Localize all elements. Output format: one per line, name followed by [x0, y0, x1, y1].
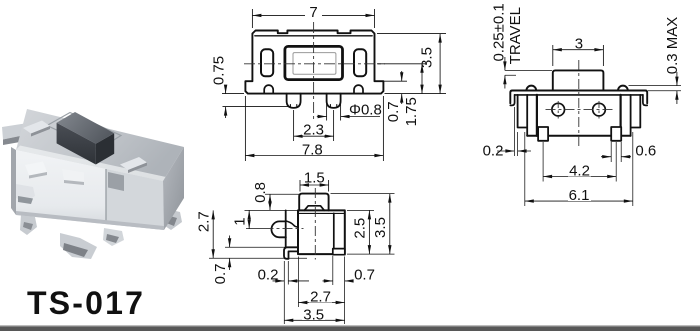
svg-text:7: 7 [309, 4, 317, 21]
side view bracket right lip [643, 95, 647, 106]
top view right slot [354, 49, 366, 76]
svg-text:3: 3 [575, 35, 583, 52]
side view right contact circle [593, 103, 606, 116]
3d body top front rim highlight [16, 146, 166, 182]
3d body left end face [11, 147, 16, 215]
top view body outline [245, 31, 383, 94]
top view left U-notch in flange [264, 85, 273, 93]
svg-text:0.2: 0.2 [258, 266, 279, 283]
3d center foot [60, 233, 97, 259]
dimension 7.8 ext lines [245, 96, 383, 161]
svg-text:4.2: 4.2 [569, 162, 590, 179]
svg-text:0.6: 0.6 [635, 142, 656, 159]
3d button right face [96, 133, 114, 164]
side view body bottom [527, 135, 630, 137]
3d terminal recess on right panel [108, 172, 124, 191]
dimension 0.7 right ext lines [333, 256, 345, 324]
seating plane line [209, 257, 307, 259]
dimension 0.3max ext lines [629, 86, 682, 91]
dimension 4.2 ext lines [543, 142, 616, 182]
top view center button outer [285, 46, 343, 79]
profile left plate edge [285, 210, 287, 247]
profile top seam [298, 212, 345, 214]
side view left contact circle [552, 103, 565, 116]
side view bracket left lip [510, 95, 514, 106]
profile horizontal centerline [264, 228, 304, 230]
3d front right panel [106, 169, 164, 230]
dimension 3.5 right line [389, 194, 391, 255]
svg-text:6.1: 6.1 [569, 187, 590, 204]
dimension 7 extension lines [252, 9, 374, 28]
dimension 6.1 line [525, 200, 633, 202]
dimension 3.5 right ext lines [331, 194, 395, 255]
3d center-right foot [103, 228, 124, 246]
dimension 0.7 right stubs [323, 280, 353, 282]
3d front-left foot [20, 214, 37, 235]
dimension 1.75 ext line [377, 63, 427, 65]
svg-text:0.2: 0.2 [483, 143, 504, 160]
3d bracket lip tab [2, 123, 34, 140]
dimension 2.3 ext lines [294, 110, 334, 141]
svg-text:1: 1 [231, 217, 248, 225]
top view dim texts [305, 3, 322, 16]
svg-text:0.8: 0.8 [252, 182, 269, 203]
3d top face right pad [120, 157, 147, 170]
profile actuator trapezoid [304, 206, 324, 211]
dimension 0.3max stubs [676, 72, 678, 104]
svg-text:2.5: 2.5 [352, 218, 369, 239]
top view right pin [327, 94, 341, 108]
side view button [553, 70, 604, 90]
svg-text:3.5: 3.5 [303, 306, 324, 323]
top view left pin [287, 94, 301, 108]
svg-text:Φ0.8: Φ0.8 [349, 102, 382, 119]
top view cover inner line [255, 35, 372, 37]
side view dim arrows [553, 48, 562, 51]
3d button recess seam [47, 113, 121, 150]
svg-text:0.7: 0.7 [212, 263, 229, 284]
side view bracket top plate [510, 91, 647, 104]
3d front face pill 2 [62, 169, 84, 182]
dimension 3.5 ext lines [377, 34, 446, 94]
dimension 0.2 ext lines [514, 107, 517, 156]
profile dim arrows [300, 183, 309, 186]
profile plunger [271, 221, 285, 237]
top view button inner faint line [293, 53, 336, 75]
dimension 1.75 line [421, 64, 423, 94]
dimension 1 line [248, 210, 250, 228]
3d button front face [57, 123, 96, 165]
dimension 0.8 line [269, 194, 271, 210]
dimension 6.1 ext lines [525, 132, 633, 206]
dimension phi0.8 line [317, 116, 380, 118]
profile body outline [298, 210, 345, 254]
dimension 7.8 line [245, 155, 383, 157]
dimension 2.3 line [294, 135, 334, 137]
side view vertical centerline [578, 60, 580, 146]
side view left body edge [536, 95, 538, 136]
top view left pin inner ticks [290, 105, 296, 108]
dimension 3.5 line [439, 34, 441, 94]
dimension 1.5 line [300, 184, 329, 186]
dimension 0.2 bottom ext lines [284, 261, 288, 324]
side view right body edge [619, 95, 621, 136]
dimension 0.75 stubs [225, 87, 227, 119]
dimension 0.7 left ext line (foot top) [225, 246, 287, 248]
shared body-top ext line [245, 209, 299, 211]
dimension 0.7 left stubs [229, 236, 231, 271]
dimension 2.7 bottom ext line [297, 257, 299, 308]
dimension 0.2 bottom stubs [273, 280, 310, 282]
3d body top face [16, 109, 184, 181]
top view right pin inner ticks [330, 105, 336, 108]
top view vertical centerline [313, 22, 315, 121]
dimension travel stubs [504, 57, 506, 89]
dimension 0.6 stubs [601, 156, 631, 158]
side view horizontal centerline [546, 109, 613, 111]
svg-text:TRAVEL: TRAVEL [507, 7, 524, 64]
extended centerline for dim 1 [246, 228, 264, 230]
dimension phi0.8 ext lines [327, 100, 341, 121]
svg-text:1.75: 1.75 [403, 97, 420, 126]
dimension 0.8 ext line [265, 193, 300, 195]
svg-text:0.7: 0.7 [354, 266, 375, 283]
svg-text:2.7: 2.7 [196, 211, 213, 232]
3d top face left pad [23, 121, 50, 134]
side view left dome bump [526, 86, 536, 91]
side view bracket bottom line [515, 94, 643, 96]
profile plate dip curve [286, 221, 298, 227]
profile right foot rect [333, 249, 345, 255]
3d front panel divider edge [105, 169, 107, 224]
dimension 2.5 right line [368, 210, 370, 254]
dimension 2.7 line [212, 210, 214, 258]
svg-text:0.7: 0.7 [385, 101, 402, 122]
profile top tab [299, 194, 328, 211]
top view right U-notch in flange [354, 85, 363, 93]
3d left lip lower tab [16, 184, 35, 202]
dimension 0.7 stubs [401, 71, 403, 104]
side view left outer column [518, 95, 528, 136]
side view right foot [611, 127, 621, 141]
3d front face pill 1 [25, 162, 47, 176]
dimension 3.5 bottom line [284, 319, 344, 321]
profile dim texts [303, 171, 326, 183]
profile L-shaped foot [284, 247, 298, 259]
dimension travel ext lines [505, 70, 552, 75]
top view left slot [261, 49, 273, 76]
dimension 4.2 line [543, 176, 616, 178]
dimension 1.5 ext lines [300, 180, 329, 192]
svg-text:2.7: 2.7 [310, 289, 331, 306]
dimension 0.6 ext lines [611, 142, 621, 162]
svg-text:0.75: 0.75 [211, 56, 228, 85]
svg-text:3.5: 3.5 [372, 217, 389, 238]
bottom bar [0, 325, 700, 326]
svg-text:1.5: 1.5 [304, 170, 325, 187]
svg-text:0.3 MAX: 0.3 MAX [664, 17, 681, 75]
side view right outer column [631, 95, 641, 136]
dimension 0.75 ext lines [222, 94, 288, 107]
3d body front face [16, 150, 164, 230]
3d front face bottom shadow [16, 211, 164, 230]
dimension 0.7 ext line [377, 80, 407, 82]
dimension 3 line [553, 49, 604, 51]
side view left foot [538, 127, 548, 141]
dimension 2.7 bottom line [298, 302, 344, 304]
dimension 7 line [252, 14, 374, 16]
svg-text:2.3: 2.3 [303, 122, 324, 139]
profile right seam [333, 213, 335, 248]
svg-text:7.8: 7.8 [302, 141, 323, 158]
3d button top face [57, 112, 115, 144]
profile vertical centerline [314, 188, 316, 260]
top view horizontal centerline [244, 63, 385, 65]
side view dim texts [573, 37, 585, 49]
dimension 0.2 stubs [497, 150, 531, 152]
svg-text:TS-017: TS-017 [27, 285, 145, 321]
svg-text:3.5: 3.5 [418, 47, 435, 68]
side view circle crosshairs [558, 101, 599, 119]
svg-text:0.25±0.1: 0.25±0.1 [491, 3, 508, 61]
dimension 3 ext lines [553, 45, 604, 66]
top view dim arrows [252, 14, 261, 17]
side view right dome bump [618, 86, 628, 91]
3d body right end face [163, 147, 184, 230]
3d far-right foot [162, 208, 182, 230]
